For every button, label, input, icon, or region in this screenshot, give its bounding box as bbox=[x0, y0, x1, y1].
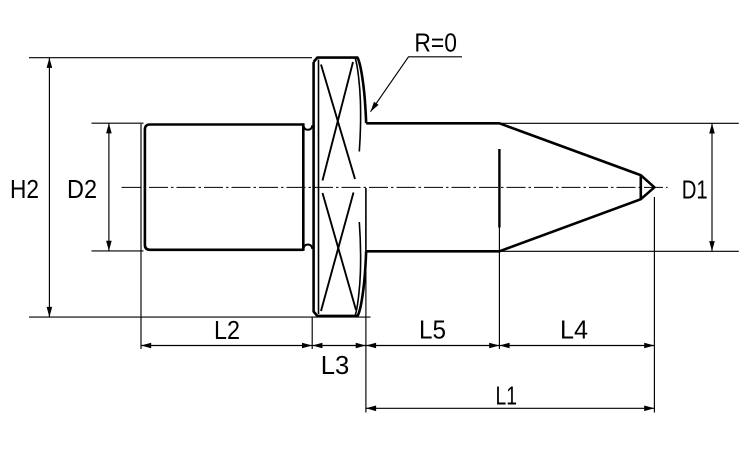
D2 top extension bbox=[92, 122, 144, 124]
svg-text:L4: L4 bbox=[560, 315, 588, 345]
shank cylinder D2 body bbox=[145, 123, 313, 251]
L5 bbox=[366, 343, 376, 349]
tip point bbox=[641, 175, 655, 199]
flange inner chamfer curve top-right bbox=[355, 59, 360, 152]
D1 top extension bbox=[499, 122, 738, 124]
svg-text:L3: L3 bbox=[321, 350, 350, 380]
svg-text:D1: D1 bbox=[682, 175, 708, 205]
svg-text:L5: L5 bbox=[419, 315, 446, 345]
L5/L4 extension bbox=[498, 228, 500, 350]
thin lines: extensions bbox=[29, 57, 739, 413]
shank end face bbox=[302, 123, 305, 251]
svg-text:D2: D2 bbox=[67, 174, 97, 204]
arrowheads bbox=[47, 58, 715, 411]
L3 bbox=[312, 343, 322, 349]
D1 bottom extension bbox=[499, 250, 738, 252]
svg-text:R=0: R=0 bbox=[414, 28, 457, 58]
L2 bbox=[141, 343, 151, 349]
D1 dimension line bbox=[711, 123, 713, 251]
L2/L3 extension (flange left) bbox=[311, 317, 313, 350]
body D1 bbox=[366, 123, 654, 251]
svg-text:H2: H2 bbox=[10, 174, 39, 204]
H2 top extension bbox=[29, 57, 312, 59]
centerline bbox=[122, 186, 668, 188]
L3/L5/L1 extension (flange right) bbox=[365, 253, 367, 413]
relief groove top bbox=[303, 125, 312, 130]
knurled flange outline bbox=[314, 58, 367, 316]
grind mark bbox=[498, 149, 500, 228]
flange inner chamfer curve bottom-right bbox=[355, 222, 360, 315]
L1 bbox=[366, 406, 376, 412]
R=0 leader bbox=[371, 57, 463, 112]
H2 bottom extension bbox=[29, 316, 371, 318]
L4/L1 extension (tip) bbox=[653, 197, 655, 413]
relief groove bottom bbox=[303, 245, 312, 250]
svg-text:L2: L2 bbox=[214, 315, 240, 345]
L1 dimension line bbox=[366, 407, 655, 409]
H2 up/down bbox=[47, 58, 53, 68]
flange/body intersection edge bbox=[365, 188, 367, 251]
flange inner chamfer line left bbox=[318, 60, 320, 315]
D2 dimension line bbox=[108, 123, 110, 251]
dimension chain line bbox=[141, 345, 654, 347]
D2 bottom extension bbox=[92, 250, 144, 252]
knurl X upper bbox=[321, 62, 356, 311]
L4 bbox=[499, 343, 509, 349]
leader bbox=[368, 102, 378, 114]
D2 up/down bbox=[106, 123, 112, 133]
L2 left extension bbox=[140, 124, 142, 349]
svg-text:L1: L1 bbox=[496, 381, 518, 411]
H2 dimension line bbox=[48, 58, 50, 317]
D1 up/down bbox=[709, 123, 715, 133]
